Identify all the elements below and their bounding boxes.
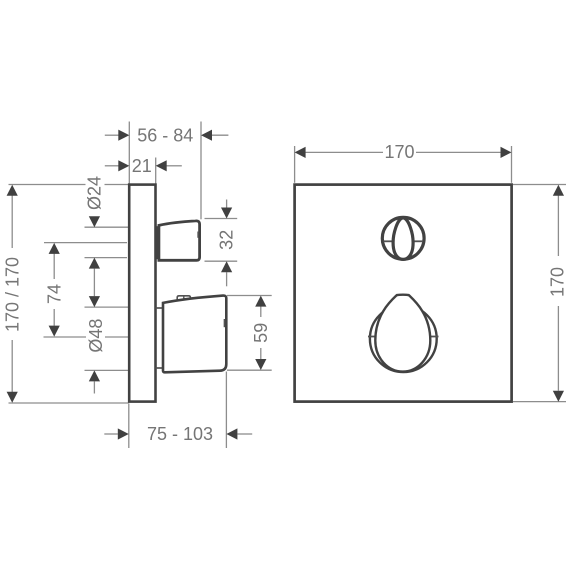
svg-text:59: 59 bbox=[251, 323, 271, 343]
extension line square top-left vertical bbox=[294, 146, 296, 183]
arrow d48 bottom bbox=[89, 370, 100, 381]
arrow 32 top bbox=[221, 208, 232, 219]
extension line square right bottom bbox=[513, 401, 566, 403]
extension line square right top bbox=[513, 184, 566, 186]
upper handle face line bbox=[197, 232, 199, 238]
extension line square top-right vertical bbox=[511, 146, 513, 183]
large knob grip bbox=[375, 295, 430, 372]
arrow 75-103 left bbox=[118, 428, 129, 439]
dim 170 right line bbox=[557, 196, 559, 391]
arrow 75-103 right bbox=[226, 428, 237, 439]
arrow 56-84 right bbox=[201, 130, 212, 141]
arrow d24 top bbox=[89, 216, 100, 227]
arrow 21 left bbox=[118, 160, 129, 171]
dim d48 bottom stem bbox=[93, 381, 95, 393]
svg-text:75 - 103: 75 - 103 bbox=[147, 424, 213, 444]
arrow 32 bottom bbox=[221, 261, 232, 272]
extension line bottom dim right vertical bbox=[225, 372, 227, 449]
extension line neck24 bottom bbox=[85, 257, 128, 259]
front square escutcheon bbox=[295, 185, 512, 402]
temp stop button bbox=[177, 296, 190, 302]
arrow 170 right bottom bbox=[553, 391, 564, 402]
arrow 74 bottom bbox=[49, 326, 60, 337]
extension line left of plate top (y=184.5) bbox=[9, 184, 129, 186]
svg-text:170 / 170: 170 / 170 bbox=[3, 257, 23, 332]
arrow 170/170 top bbox=[7, 185, 18, 196]
arrow 170 top left bbox=[295, 147, 306, 158]
extension line 32 bottom bbox=[205, 260, 238, 262]
extension line neck48 top bbox=[85, 306, 129, 308]
small knob crossbar bbox=[384, 240, 395, 242]
extension line left of plate bottom (y=403) bbox=[9, 402, 129, 404]
extension line 32 top bbox=[205, 218, 238, 220]
extension line 59 top bbox=[227, 295, 272, 297]
lower handle neck top bbox=[156, 307, 164, 309]
upper handle side view bbox=[159, 221, 200, 260]
upper handle neck fill bbox=[156, 226, 158, 259]
dim 56-84 line bbox=[105, 134, 119, 136]
arrow 56-84 left bbox=[118, 130, 129, 141]
arrow d48 top bbox=[89, 296, 100, 307]
dim 170/170 line bbox=[11, 193, 13, 394]
svg-text:170: 170 bbox=[548, 267, 568, 297]
large knob grip notches bbox=[395, 294, 398, 297]
lower handle face line bbox=[223, 319, 225, 327]
arrow 21 right bbox=[156, 160, 167, 171]
dim 74 line bbox=[53, 253, 55, 326]
extension line lower knob axis bbox=[44, 336, 129, 338]
dim 21 line bbox=[105, 165, 119, 167]
extension line wall plane vertical bbox=[128, 122, 130, 185]
arrow d24 bottom bbox=[89, 258, 100, 269]
wall plate side view bbox=[129, 185, 155, 402]
extension line plate front vertical bbox=[155, 158, 157, 185]
svg-text:21: 21 bbox=[132, 156, 152, 176]
lower handle neck bottom bbox=[156, 367, 164, 369]
dim d24-d48 stem bbox=[93, 269, 95, 297]
arrow 74 top bbox=[49, 243, 60, 254]
arrow 170 top right bbox=[501, 147, 512, 158]
arrow 170 right top bbox=[553, 185, 564, 196]
extension line neck48 bottom bbox=[85, 369, 129, 371]
small knob grip bbox=[393, 218, 413, 260]
large knob ring bbox=[370, 305, 437, 372]
svg-text:Ø48: Ø48 bbox=[86, 319, 106, 353]
arrow 59 bottom bbox=[255, 359, 266, 370]
extension line bottom dim left vertical bbox=[128, 404, 130, 449]
dim 32 stems bbox=[226, 200, 228, 208]
arrow 59 top bbox=[255, 296, 266, 307]
svg-text:Ø24: Ø24 bbox=[85, 176, 105, 210]
large knob crossbar bbox=[368, 336, 376, 338]
dim 75-103 line bbox=[104, 433, 118, 435]
svg-text:56 - 84: 56 - 84 bbox=[137, 126, 193, 146]
dim 170 top line bbox=[305, 151, 501, 153]
small knob ring bbox=[382, 217, 424, 259]
extension line upper knob axis bbox=[44, 242, 127, 244]
svg-text:74: 74 bbox=[44, 284, 64, 304]
text mask rects bbox=[86, 173, 105, 214]
svg-text:170: 170 bbox=[384, 142, 414, 162]
extension line 59 bottom bbox=[227, 369, 272, 371]
arrow 170/170 bottom bbox=[7, 392, 18, 403]
extension line neck24 top bbox=[85, 226, 129, 228]
extension line handle front vertical bbox=[200, 122, 202, 220]
lower handle side view bbox=[163, 296, 226, 373]
svg-text:32: 32 bbox=[216, 230, 236, 250]
dim 59 line bbox=[260, 306, 262, 359]
